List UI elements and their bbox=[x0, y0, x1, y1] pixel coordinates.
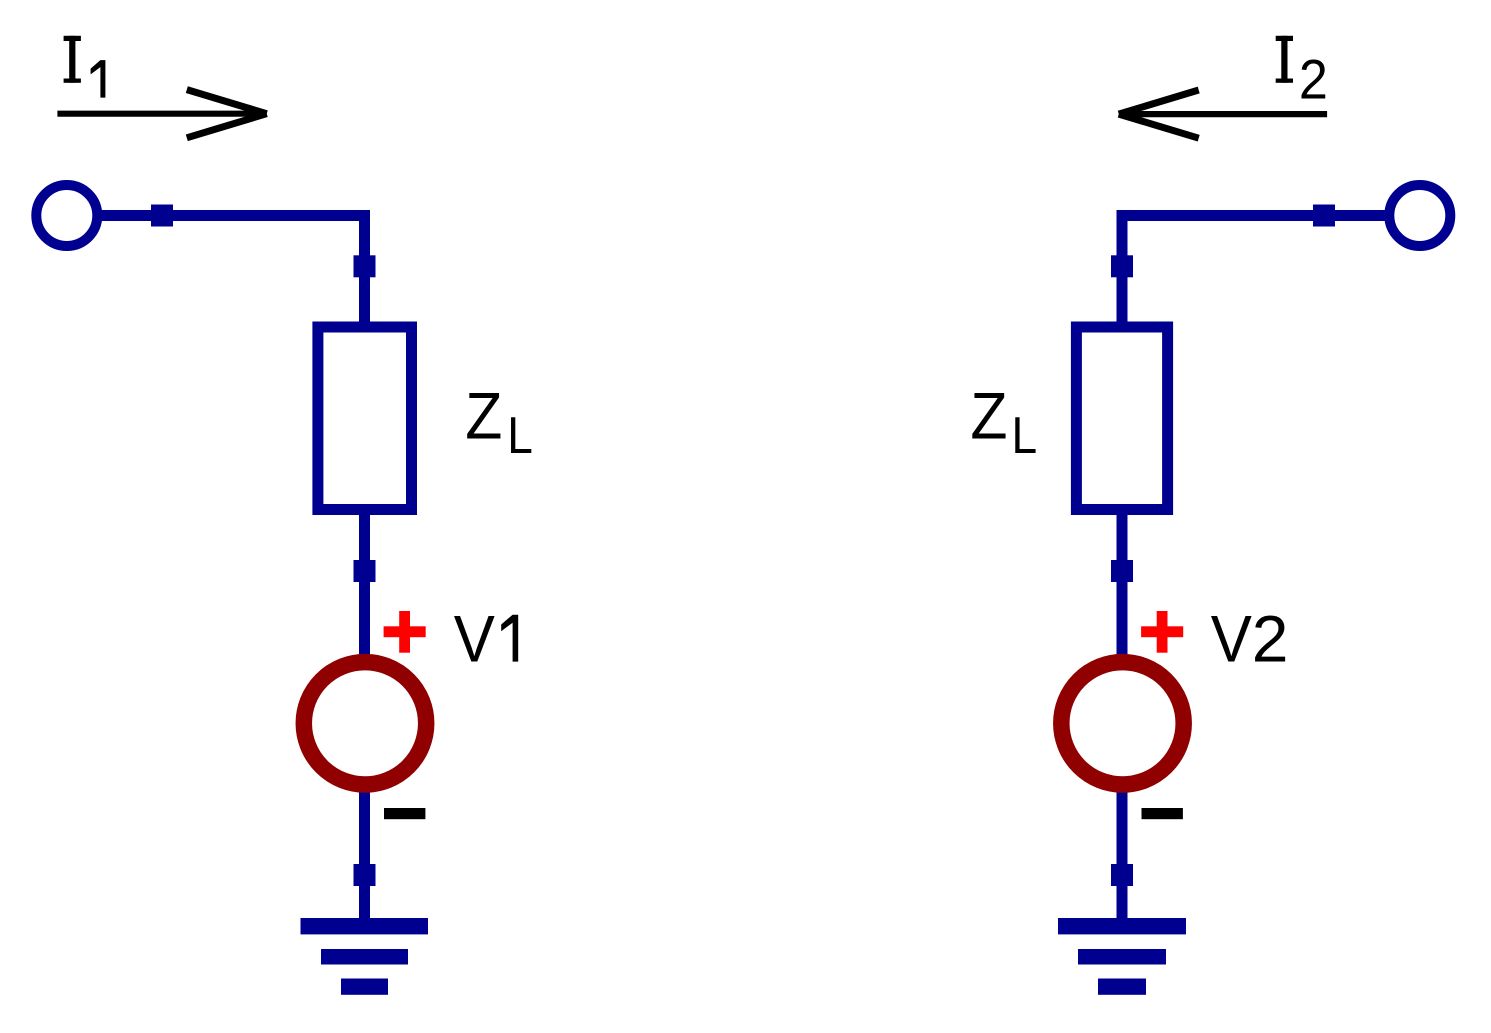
svg-text:2: 2 bbox=[1299, 47, 1328, 110]
ground right bbox=[1058, 918, 1186, 995]
label I2 (letter I) bbox=[1276, 36, 1293, 83]
plus sign V1 bbox=[384, 611, 426, 653]
minus sign V1 bbox=[384, 808, 425, 819]
svg-text:V: V bbox=[454, 602, 495, 676]
svg-text:L: L bbox=[1012, 407, 1038, 465]
svg-text:Z: Z bbox=[970, 378, 1007, 452]
label I1 (letter I) bbox=[64, 36, 81, 83]
voltage source V1 circle bbox=[304, 662, 426, 784]
voltage source V2 circle bbox=[1061, 662, 1183, 784]
resistor ZL left bbox=[318, 327, 412, 510]
junction on left vertical wire upper bbox=[354, 255, 376, 277]
minus sign V2 bbox=[1142, 808, 1183, 819]
wire left branch bbox=[67, 216, 365, 927]
svg-text:L: L bbox=[507, 407, 533, 465]
label V1 (digit 1) bbox=[501, 615, 518, 662]
wire right branch bbox=[1122, 216, 1420, 927]
plus sign V2 bbox=[1141, 611, 1183, 653]
svg-text:V: V bbox=[1211, 602, 1252, 676]
junction on right horizontal wire bbox=[1313, 205, 1335, 227]
junction on left horizontal wire bbox=[151, 205, 173, 227]
junction on right vertical wire lower bbox=[1111, 864, 1133, 886]
terminal port left bbox=[36, 185, 97, 246]
arrow I2 bbox=[1119, 90, 1327, 138]
terminal port right bbox=[1389, 185, 1450, 246]
label I1 subscript 1 bbox=[91, 60, 106, 98]
junction on left vertical wire lower bbox=[354, 864, 376, 886]
svg-text:Z: Z bbox=[465, 378, 502, 452]
ground left bbox=[301, 918, 429, 995]
arrow I1 bbox=[57, 90, 266, 138]
svg-text:2: 2 bbox=[1252, 602, 1289, 676]
junction on right vertical wire middle bbox=[1111, 560, 1133, 582]
resistor ZL right bbox=[1076, 327, 1167, 510]
junction on right vertical wire upper bbox=[1111, 255, 1133, 277]
junction on left vertical wire middle bbox=[354, 560, 376, 582]
